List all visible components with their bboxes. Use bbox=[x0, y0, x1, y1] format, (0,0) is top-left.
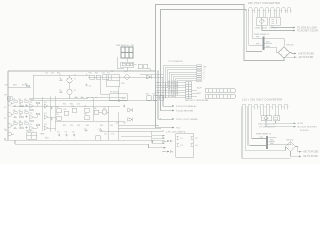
channel 1 components bbox=[14, 98, 56, 110]
svg-text:IC6: IC6 bbox=[44, 124, 47, 126]
capacitor C15 bbox=[81, 96, 85, 98]
arrowhead feed 1 bbox=[244, 10, 245, 11]
resistor R26 bbox=[96, 136, 101, 141]
resistor R19 bbox=[64, 111, 69, 115]
svg-text:IC5: IC5 bbox=[30, 124, 33, 126]
resistor R10 bbox=[19, 112, 23, 114]
svg-text:AC/P: AC/P bbox=[197, 87, 202, 90]
wire C top border bbox=[8, 70, 156, 72]
wire output 0V line bbox=[262, 26, 294, 31]
wire BR2 dc out - bbox=[284, 57, 296, 58]
relay box K1 outline bbox=[270, 17, 281, 26]
svg-text:SEE SHT 2 TERM DETAIL: SEE SHT 2 TERM DETAIL bbox=[185, 99, 210, 102]
junction dot caps rail 3 bbox=[96, 97, 97, 98]
svg-text:SEC: SEC bbox=[270, 140, 275, 142]
resistor R20 bbox=[72, 108, 77, 112]
transformer T1 core bbox=[263, 37, 265, 51]
terminal block left border bbox=[7, 97, 12, 101]
svg-text:REG: REG bbox=[122, 98, 126, 100]
junction dots J3 rows bbox=[158, 82, 159, 83]
transformer T1 secondary leads bbox=[265, 39, 284, 53]
svg-text:A 22-04: A 22-04 bbox=[310, 29, 319, 32]
crystal Y1 bbox=[67, 78, 72, 83]
wire mid vertical 2 bbox=[107, 106, 109, 140]
resistor R23 bbox=[94, 110, 99, 114]
resistor R22 bbox=[85, 116, 90, 120]
junction dot exit 2 bbox=[160, 128, 161, 129]
wire B nested feed 3 bbox=[248, 108, 266, 146]
svg-text:L-FIL.1 AC LINE FIL: L-FIL.1 AC LINE FIL bbox=[166, 131, 186, 134]
svg-text:IC1: IC1 bbox=[30, 102, 33, 104]
bottom row devices bbox=[27, 129, 103, 140]
wire staircase pin 8 bbox=[177, 81, 197, 95]
svg-text:R42: R42 bbox=[70, 104, 73, 106]
IC U1 divider bbox=[107, 75, 120, 81]
IC U1 box bbox=[107, 75, 120, 87]
wire D vertical bus 2 bbox=[157, 71, 159, 119]
svg-text:P12 AC RETURN: P12 AC RETURN bbox=[176, 109, 194, 112]
op-amp U5 bbox=[44, 115, 48, 120]
svg-text:R62: R62 bbox=[100, 125, 103, 127]
svg-text:B 22-110: B 22-110 bbox=[300, 130, 309, 132]
bridge rectifier BR2 diamond bbox=[278, 47, 289, 58]
svg-text:B7 GND: B7 GND bbox=[168, 96, 176, 98]
wire U6 out bbox=[33, 126, 37, 128]
wire osc rail top bbox=[33, 74, 90, 76]
wire K3 outer hook bbox=[117, 57, 124, 69]
svg-text:C1: C1 bbox=[59, 78, 61, 80]
row A devices along top bbox=[88, 74, 163, 102]
svg-text:R4: R4 bbox=[24, 99, 26, 101]
wire J3 row 1 bbox=[156, 82, 186, 84]
capacitor C7 bbox=[118, 99, 120, 102]
svg-text:C1: C1 bbox=[180, 138, 183, 140]
connector J1 pin loop 7 bbox=[281, 8, 286, 11]
input jack J5 bbox=[8, 113, 11, 116]
capacitor C4c vertical bbox=[50, 107, 52, 110]
svg-text:R51: R51 bbox=[63, 125, 66, 127]
terminal strip TB1 boxes bbox=[205, 89, 235, 93]
wire BR4 out - bbox=[291, 152, 300, 157]
junction dot osc 4 bbox=[69, 98, 70, 99]
input jack J7 bbox=[8, 132, 11, 135]
svg-text:PWR XFMR T2: PWR XFMR T2 bbox=[256, 133, 272, 135]
svg-text:C13: C13 bbox=[51, 73, 54, 75]
op-amp U7 bbox=[44, 126, 48, 131]
wire pins to rectifier box bbox=[249, 11, 291, 17]
svg-text:C4: C4 bbox=[57, 132, 59, 134]
relay K1 inner contacts bbox=[272, 19, 277, 25]
svg-text:TRIM: TRIM bbox=[40, 134, 45, 136]
connector J1 pin loop 8 bbox=[287, 8, 292, 11]
junction dot rowA 1 bbox=[155, 71, 156, 72]
wire nested feed 4 bbox=[252, 15, 262, 39]
op-amp U6 bbox=[30, 126, 34, 131]
E bus arrow 1 bbox=[163, 135, 165, 137]
wire mid rail 2 bbox=[55, 120, 125, 122]
input jack J4 stub bbox=[11, 103, 13, 105]
relay K4 pane bbox=[27, 133, 37, 140]
rectifier box BR3 outline bbox=[261, 116, 272, 121]
filter input arrow 1 bbox=[162, 140, 167, 142]
svg-text:C71: C71 bbox=[104, 134, 107, 136]
svg-text:-VE TO PC BD: -VE TO PC BD bbox=[303, 156, 319, 158]
capacitor C3 vertical bbox=[85, 84, 87, 87]
resistor R5 bbox=[14, 101, 18, 103]
capacitor C4b vertical bbox=[25, 104, 27, 107]
diode D1 bbox=[146, 75, 151, 79]
E bus arrow 2 bbox=[163, 137, 165, 139]
input jack J4 bbox=[8, 102, 11, 105]
svg-text:R41: R41 bbox=[63, 104, 66, 106]
diode D3 bbox=[128, 118, 133, 122]
svg-text:VR: VR bbox=[103, 108, 106, 110]
capacitor C34 on right wall bbox=[191, 144, 194, 147]
svg-text:R9: R9 bbox=[19, 115, 21, 117]
op-amp U4 bbox=[30, 115, 34, 120]
wire top bus 2 bbox=[161, 10, 263, 67]
svg-text:R31: R31 bbox=[89, 72, 92, 74]
wire C exit vertical bbox=[117, 112, 119, 140]
wire C exit rail 2 bbox=[118, 127, 161, 129]
capacitor C11 bbox=[73, 134, 75, 137]
channel 3 components bbox=[14, 120, 56, 130]
junction dot osc 3 bbox=[86, 75, 87, 76]
input jack J5 stub bbox=[11, 114, 13, 116]
capacitor C6 bbox=[14, 127, 18, 129]
amplifier input channels bbox=[8, 102, 14, 136]
svg-text:PS 24V DC: PS 24V DC bbox=[110, 92, 119, 94]
connector J1 pin loop 3 bbox=[259, 8, 264, 11]
capacitor C9 bbox=[58, 134, 60, 137]
wire R28 down bbox=[148, 69, 150, 71]
connector J2 pin loop 5 bbox=[266, 104, 271, 107]
resistor R14 bbox=[19, 123, 23, 125]
terminal arrow BR2 out1 bbox=[294, 53, 296, 55]
capacitor C4 bbox=[14, 105, 18, 107]
wire U5 out bbox=[48, 116, 56, 118]
svg-text:R72: R72 bbox=[153, 94, 156, 96]
wire staircase pin 1 bbox=[163, 66, 197, 83]
wire J3 row 3 bbox=[156, 87, 186, 89]
wire U4 out bbox=[33, 115, 37, 117]
bridge rectifier BR3 diamond bbox=[264, 116, 268, 121]
svg-text:TO AC RET: TO AC RET bbox=[297, 30, 310, 33]
resistor R28 bbox=[144, 64, 148, 68]
wire D vertical bus 4 bbox=[162, 77, 164, 106]
junction dot caps rail 1 bbox=[88, 97, 89, 98]
wire staircase pin 7 bbox=[175, 79, 197, 98]
wire K3 link bbox=[126, 58, 128, 71]
connector J3 grid col2 bbox=[189, 82, 192, 99]
wire U3 out bbox=[48, 105, 56, 107]
svg-text:D11: D11 bbox=[116, 122, 119, 124]
svg-text:R21: R21 bbox=[57, 73, 60, 75]
wire mid rail 1 bbox=[12, 105, 120, 107]
wire BR2 dc out + bbox=[290, 53, 296, 54]
svg-text:C3: C3 bbox=[180, 145, 183, 147]
transformer T2 primary leads bbox=[250, 139, 266, 146]
connector J2 pin stubs bbox=[254, 108, 288, 116]
crystal Y2 leads bbox=[69, 88, 71, 98]
wire left mid tap bbox=[8, 86, 31, 88]
svg-text:C3: C3 bbox=[89, 86, 91, 88]
svg-text:A 110: A 110 bbox=[298, 122, 304, 125]
svg-text:BR 250: BR 250 bbox=[287, 44, 295, 46]
signal arrow row 3 bbox=[158, 118, 172, 120]
connector J3 grid col1 bbox=[186, 82, 189, 99]
svg-text:110 + 220 VOLT CONVERTER: 110 + 220 VOLT CONVERTER bbox=[242, 98, 282, 102]
resistor R16c bbox=[36, 124, 40, 126]
wire E bus drop bbox=[151, 131, 153, 143]
resistor R16 bbox=[20, 127, 24, 129]
wire D vertical bus 5 bbox=[165, 83, 167, 98]
wire C lower rail x121 bbox=[121, 135, 152, 137]
terminal arrow BR4 out2 bbox=[299, 156, 301, 158]
wire C exit rail 3 bbox=[100, 130, 163, 132]
crystal Y2 bbox=[67, 89, 72, 94]
junction dot rowA 2 bbox=[158, 71, 159, 72]
wire osc rail left bbox=[32, 75, 34, 98]
capacitor C5c vertical bbox=[50, 118, 52, 121]
op-amp U3 bbox=[44, 104, 48, 109]
resistor R8b feedback bbox=[30, 98, 34, 100]
transformer T1 primary leads bbox=[250, 38, 262, 45]
wire staircase pin 5 bbox=[171, 74, 197, 92]
E bus arrow 5 bbox=[164, 147, 166, 149]
junction dot filter in 1 bbox=[170, 140, 171, 141]
connector J2 pin loop 8 bbox=[284, 104, 289, 107]
capacitor C5 bbox=[14, 116, 18, 118]
svg-text:J1: J1 bbox=[4, 107, 6, 109]
wire C bottom rail 2 bbox=[15, 144, 165, 148]
svg-text:RELAY 2: RELAY 2 bbox=[26, 130, 34, 133]
svg-text:R6: R6 bbox=[13, 110, 15, 112]
resistor R13 bbox=[14, 123, 18, 125]
capacitor C8 bbox=[123, 105, 125, 108]
diode D2 bbox=[128, 108, 133, 112]
svg-text:C41: C41 bbox=[77, 104, 80, 106]
capacitor C10 bbox=[65, 134, 67, 137]
scatter labels C block bbox=[4, 72, 156, 139]
resistor R25 bbox=[153, 96, 158, 101]
connector J1 pin loop 5 bbox=[270, 8, 275, 11]
input jack J7 stub bbox=[11, 133, 14, 135]
wire C bottom rail 1 bbox=[5, 140, 164, 143]
wire D vertical bus 1 bbox=[155, 64, 157, 128]
bridge BR2 diode marks bbox=[281, 50, 287, 56]
svg-text:Y1: Y1 bbox=[74, 79, 76, 81]
svg-text:R32: R32 bbox=[95, 72, 98, 74]
wire U2 out bbox=[33, 104, 37, 106]
resistor R12 bbox=[20, 116, 24, 118]
capacitor C12 bbox=[85, 129, 89, 131]
capacitor C2 bbox=[59, 91, 63, 93]
wire row A rail bbox=[88, 74, 163, 77]
svg-text:SEC: SEC bbox=[266, 41, 271, 43]
wire J3 row 6 bbox=[156, 94, 186, 96]
svg-text:B250 C1500: B250 C1500 bbox=[256, 28, 268, 30]
terminal arrow out 2 bbox=[293, 30, 295, 32]
terminal arrow BR2 out2 bbox=[294, 56, 296, 58]
svg-text:C7: C7 bbox=[84, 129, 86, 131]
relay K3 pane grid bbox=[121, 47, 133, 58]
channel vertical rails bbox=[42, 96, 56, 132]
connector J2 pin loop 1 bbox=[242, 104, 247, 107]
junction dot exit 3 bbox=[163, 131, 164, 132]
resistor R27 bbox=[138, 64, 142, 68]
connector J2 pin loop 3 bbox=[254, 104, 259, 107]
wire C exit rail 1 bbox=[118, 125, 158, 127]
junction dot osc 5 bbox=[86, 98, 87, 99]
wire E bus row 1 bbox=[152, 135, 164, 137]
capacitor C6b vertical bbox=[25, 126, 27, 129]
junction dot caps rail 2 bbox=[92, 97, 93, 98]
junction dots bottom rail bbox=[85, 140, 86, 141]
svg-text:P2: P2 bbox=[204, 67, 207, 69]
resistor R15 bbox=[25, 123, 29, 125]
svg-text:J2: J2 bbox=[4, 118, 6, 120]
wire osc rail bottom bbox=[30, 97, 88, 99]
svg-text:D12: D12 bbox=[123, 122, 126, 124]
resistor R8c bbox=[36, 102, 40, 104]
wire K3 to board bbox=[134, 65, 137, 72]
wire D vertical bus 3 bbox=[160, 66, 162, 111]
junction dot osc 1 bbox=[60, 75, 61, 76]
resistor R11 bbox=[25, 112, 29, 114]
connector J2 pin loop 7 bbox=[278, 104, 283, 107]
resistor R24 bbox=[147, 96, 152, 101]
relay K3 coil contact 2 bbox=[126, 63, 129, 66]
resistor R2 bbox=[90, 75, 95, 79]
svg-text:RET: RET bbox=[197, 93, 202, 95]
power box PS1 bbox=[109, 94, 127, 101]
svg-text:7: 7 bbox=[204, 79, 205, 81]
capacitor C14 bbox=[75, 96, 79, 98]
resistor R17 bbox=[57, 109, 62, 113]
signal arrow row 2 bbox=[161, 110, 173, 112]
pot VR1 leads bbox=[99, 111, 109, 113]
terminal arrow B out2 bbox=[294, 126, 296, 128]
channel 2 components bbox=[14, 109, 56, 121]
bridge rectifier BR4 diamond bbox=[286, 142, 296, 152]
connector J1 pin loop 4 bbox=[265, 8, 270, 11]
svg-text:SW1: SW1 bbox=[45, 138, 49, 140]
resistor R21 bbox=[85, 108, 90, 112]
svg-text:C52: C52 bbox=[77, 125, 80, 127]
pot VR1 bbox=[102, 110, 107, 115]
resistor R25b bbox=[160, 96, 164, 101]
svg-text:PWR RELAY K1 - 24V: PWR RELAY K1 - 24V bbox=[116, 44, 135, 47]
svg-text:R8: R8 bbox=[24, 110, 26, 112]
svg-text:AC 110V 220V RET: AC 110V 220V RET bbox=[298, 126, 318, 129]
wire B nested feed 4 bbox=[251, 108, 266, 139]
wire J3 row 4 bbox=[156, 89, 186, 91]
svg-text:P13 LO VOLT SENSE: P13 LO VOLT SENSE bbox=[176, 119, 198, 121]
junction dot filter in 2 bbox=[170, 151, 171, 152]
wire rail x55.5 bbox=[51, 96, 56, 132]
svg-text:-VE TO PC BD: -VE TO PC BD bbox=[298, 57, 314, 59]
wire B nested feed 2 bbox=[245, 108, 285, 151]
relay K2 contacts bbox=[275, 117, 278, 120]
resistor R4 bbox=[103, 75, 109, 80]
wire C left border bbox=[7, 71, 9, 140]
relay K3 coil box bbox=[121, 62, 134, 67]
svg-text:R11 1K: R11 1K bbox=[22, 85, 28, 87]
terminal arrow out 1 bbox=[293, 27, 295, 29]
svg-text:+VE TO PC BD: +VE TO PC BD bbox=[303, 152, 319, 154]
junction dot exit 1 bbox=[158, 125, 159, 126]
svg-text:IC3: IC3 bbox=[30, 113, 33, 115]
svg-text:R61: R61 bbox=[86, 125, 89, 127]
wire J3 row 5 bbox=[156, 92, 186, 94]
wire top caps rail bbox=[88, 97, 126, 99]
wire B output line 1 bbox=[276, 121, 295, 123]
connector J1 pin loop 6 bbox=[276, 8, 281, 11]
input jack J6 bbox=[8, 124, 11, 127]
terminal strip TB2 boxes bbox=[205, 95, 235, 99]
wire J3 row 2 bbox=[156, 84, 186, 86]
rectifier box BR1 outline bbox=[257, 17, 268, 26]
junction dot row 3 bbox=[160, 118, 161, 119]
resistor R7 bbox=[25, 101, 29, 103]
svg-text:IC4: IC4 bbox=[44, 113, 47, 115]
capacitor C13 bbox=[99, 129, 103, 131]
capacitor C31 on left wall bbox=[177, 137, 180, 140]
svg-text:R7: R7 bbox=[19, 110, 21, 112]
filter input arrow 2 bbox=[162, 151, 167, 153]
connector J2 pin loop 6 bbox=[272, 104, 277, 107]
connector P2 pin squares bbox=[197, 65, 202, 67]
svg-text:OSC: OSC bbox=[121, 83, 125, 85]
svg-text:REG: REG bbox=[13, 85, 17, 87]
resistor R6 bbox=[19, 101, 23, 103]
svg-text:C61: C61 bbox=[110, 125, 113, 127]
svg-text:R3: R3 bbox=[19, 99, 21, 101]
transformer T2 core bbox=[266, 136, 268, 149]
resistor R3 bbox=[96, 75, 101, 79]
transformer T2 secondary leads bbox=[268, 138, 290, 145]
svg-text:C72: C72 bbox=[111, 134, 114, 136]
wire E bus row 3 bbox=[152, 140, 166, 142]
bridge rectifier BR1 diamond bbox=[259, 17, 264, 26]
terminal arrow B out1 bbox=[294, 122, 296, 124]
resistor R12b feedback bbox=[30, 109, 34, 111]
svg-text:R2: R2 bbox=[13, 99, 15, 101]
junction dots bottom rail 2 bbox=[60, 140, 61, 141]
svg-text:Y2: Y2 bbox=[74, 90, 76, 92]
resistor R8 bbox=[20, 105, 24, 107]
wire x100 drop bbox=[101, 79, 110, 94]
connector J1 pin loop 1 bbox=[248, 8, 253, 11]
relay K3 coil contact 3 bbox=[131, 63, 133, 66]
wire BR4 out + bbox=[296, 147, 300, 152]
relay K3 pane box bbox=[121, 47, 133, 58]
capacitor C5b vertical bbox=[25, 115, 27, 118]
svg-text:PRI: PRI bbox=[260, 137, 264, 139]
svg-text:SEC: SEC bbox=[266, 46, 271, 48]
svg-text:P11 HI VOLTAGE AC: P11 HI VOLTAGE AC bbox=[176, 105, 197, 108]
svg-text:C5: C5 bbox=[65, 132, 67, 134]
relay K4 box bbox=[27, 133, 37, 140]
connector J2 pin loop 2 bbox=[248, 104, 253, 107]
wire top bus 1 bbox=[156, 5, 285, 65]
input jack J6 stub bbox=[11, 125, 13, 127]
svg-text:IC2: IC2 bbox=[44, 102, 47, 104]
filter box FL1 outline bbox=[176, 134, 194, 158]
relay K3 coil contact 1 bbox=[122, 63, 125, 66]
junction dot osc 2 bbox=[75, 75, 76, 76]
